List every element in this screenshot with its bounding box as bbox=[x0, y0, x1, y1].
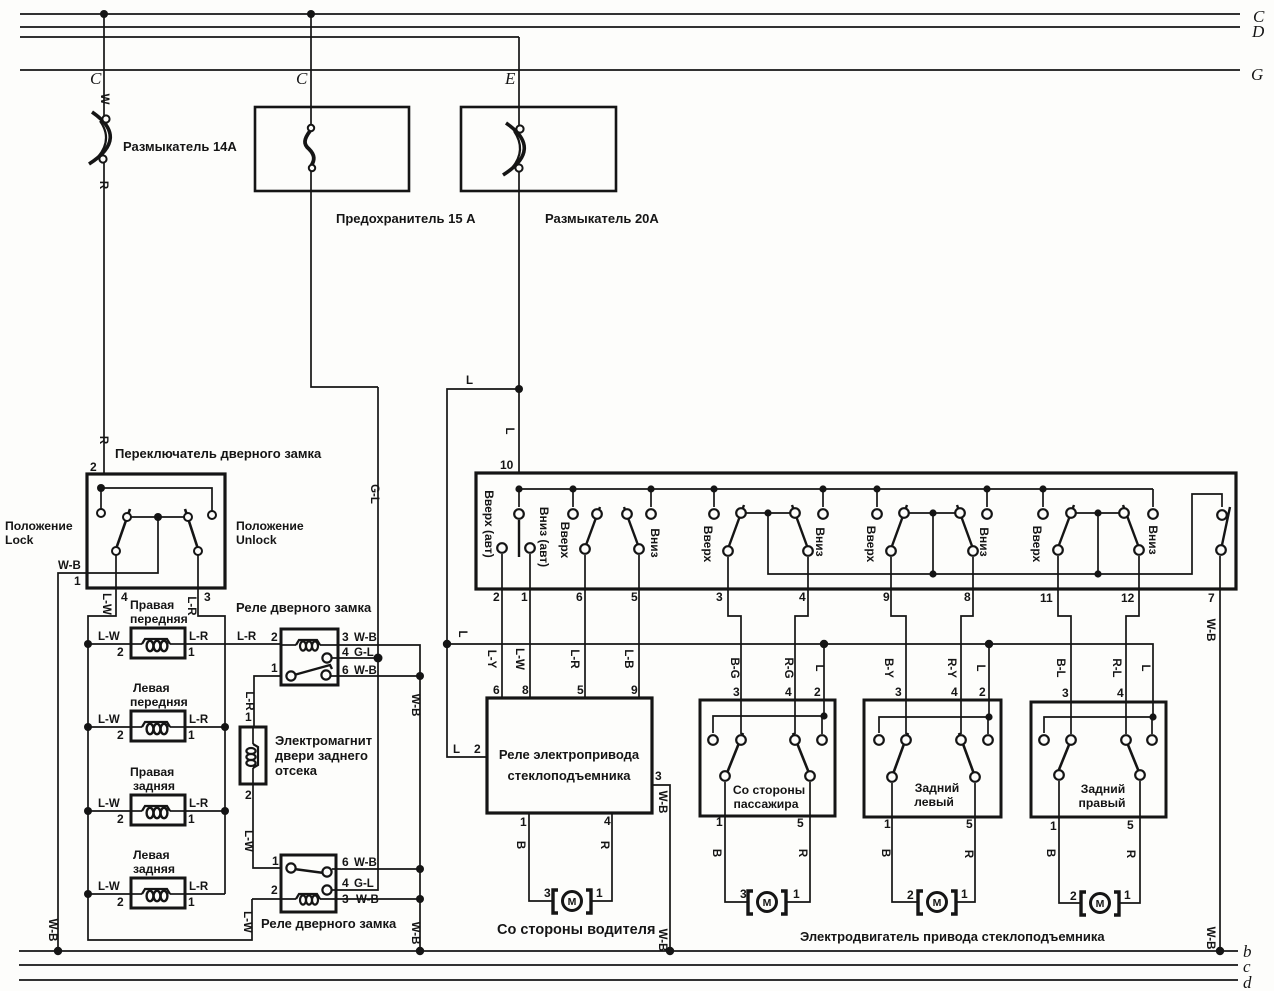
group E link bar bbox=[1071, 512, 1124, 514]
svg-text:L-Y: L-Y bbox=[485, 650, 497, 669]
breaker 14A bottom terminal bbox=[99, 155, 106, 162]
breaker 20A top terminal bbox=[516, 125, 523, 132]
passenger contact pin3 bbox=[736, 735, 746, 745]
power window relay U6 box bbox=[487, 698, 652, 813]
wire rear-left internal rail bbox=[879, 717, 989, 733]
svg-text:B: B bbox=[879, 849, 891, 857]
svg-text:L-R: L-R bbox=[189, 798, 209, 810]
relay1 pivot circle pin1 bbox=[286, 671, 295, 680]
svg-text:3: 3 bbox=[204, 590, 211, 604]
passenger lever left bbox=[727, 733, 743, 773]
svg-text:8: 8 bbox=[522, 683, 529, 697]
node bus b / W-B relay column bbox=[416, 947, 424, 955]
svg-text:6: 6 bbox=[342, 855, 349, 869]
svg-text:Вверх: Вверх bbox=[558, 522, 572, 559]
svg-text:1: 1 bbox=[793, 887, 800, 901]
svg-text:L-R: L-R bbox=[243, 691, 255, 711]
rear-right lever right bbox=[1124, 735, 1139, 772]
svg-text:Правая: Правая bbox=[130, 598, 174, 612]
svg-text:d: d bbox=[1243, 973, 1252, 991]
svg-text:L-W: L-W bbox=[100, 593, 112, 615]
svg-text:B-G: B-G bbox=[728, 657, 740, 678]
svg-text:W-B: W-B bbox=[1204, 927, 1216, 950]
wire panel pin 1 down to relay pin 8 bbox=[529, 554, 531, 698]
wire panel pin 9 down with jog bbox=[891, 557, 906, 734]
node bus b / W-B pin7 bbox=[1216, 947, 1224, 955]
svg-text:5: 5 bbox=[577, 683, 584, 697]
svg-text:1: 1 bbox=[74, 574, 81, 588]
svg-text:W-B: W-B bbox=[1204, 619, 1216, 642]
relay1 coil line bbox=[281, 644, 296, 646]
svg-text:2: 2 bbox=[117, 812, 124, 826]
node G-L at relay1 pin4 bbox=[374, 654, 383, 663]
svg-text:3: 3 bbox=[1062, 686, 1069, 700]
svg-text:W-B: W-B bbox=[656, 929, 668, 952]
lever pivot circle right bbox=[184, 513, 192, 521]
svg-text:4: 4 bbox=[1117, 686, 1124, 700]
svg-text:8: 8 bbox=[964, 590, 971, 604]
rear-right contact far-left bbox=[1039, 735, 1049, 745]
bus C (top) bbox=[20, 13, 1240, 15]
wire row3 bbox=[88, 810, 225, 812]
svg-text:M: M bbox=[1096, 898, 1105, 910]
svg-text:1: 1 bbox=[884, 817, 891, 831]
svg-text:2: 2 bbox=[271, 630, 278, 644]
svg-text:Вниз: Вниз bbox=[977, 527, 991, 556]
node W-B at relay2 pin3 bbox=[416, 895, 424, 903]
solenoid L3 Правая задняя bbox=[131, 795, 185, 825]
svg-text:L-W: L-W bbox=[241, 911, 253, 933]
wire group E link down bbox=[1097, 513, 1099, 574]
svg-text:L-R: L-R bbox=[189, 714, 209, 726]
group E up contact stub bbox=[1042, 489, 1044, 507]
group D link bar bbox=[904, 512, 960, 514]
svg-text:3: 3 bbox=[740, 887, 747, 901]
relay1 pin1 wire bbox=[254, 676, 281, 727]
wire pin2 stub to contact bbox=[987, 717, 989, 734]
node: right bus row3 bbox=[221, 807, 229, 815]
breaker 14A top terminal bbox=[102, 115, 109, 122]
passenger window motor M2 bbox=[748, 891, 786, 914]
group B up lever bbox=[586, 507, 600, 545]
svg-text:2: 2 bbox=[474, 742, 481, 756]
wire panel pin 11 down with jog bbox=[1058, 556, 1071, 734]
bus G bbox=[20, 69, 1240, 71]
svg-text:пассажира: пассажира bbox=[734, 797, 799, 811]
node: switch internal junction pin2 bbox=[97, 484, 105, 492]
wire row2 bbox=[88, 726, 225, 728]
svg-text:C: C bbox=[90, 69, 102, 88]
rear-right pivot pin1 bbox=[1054, 770, 1064, 780]
breaker 14A bbox=[89, 112, 110, 164]
svg-text:1: 1 bbox=[1124, 888, 1131, 902]
contact circle left (Lock side) bbox=[97, 509, 105, 517]
svg-text:R-L: R-L bbox=[1110, 658, 1122, 677]
svg-text:Вниз: Вниз bbox=[648, 528, 662, 557]
svg-text:4: 4 bbox=[342, 876, 349, 890]
relay1 coil loops bbox=[300, 641, 306, 650]
svg-text:12: 12 bbox=[1121, 591, 1135, 605]
svg-text:Вниз: Вниз bbox=[1146, 525, 1160, 554]
relay2 pivot circle pin1 bbox=[286, 863, 295, 872]
wire relay2 pin6 to W-B bus bbox=[332, 868, 420, 870]
svg-text:L-W: L-W bbox=[98, 881, 120, 893]
svg-text:2: 2 bbox=[1070, 889, 1077, 903]
svg-text:W-B: W-B bbox=[356, 894, 379, 906]
svg-text:Вниз (авт): Вниз (авт) bbox=[537, 507, 551, 567]
svg-text:L-R: L-R bbox=[189, 631, 209, 643]
group C link bar bbox=[741, 512, 795, 514]
svg-text:3: 3 bbox=[895, 685, 902, 699]
svg-text:1: 1 bbox=[521, 590, 528, 604]
rear-right contact L bbox=[1147, 735, 1157, 745]
svg-text:2: 2 bbox=[814, 685, 821, 699]
svg-text:4: 4 bbox=[785, 685, 792, 699]
node bus b / W-B left bbox=[54, 947, 62, 955]
master switch panel U5 box bbox=[476, 473, 1236, 589]
svg-text:2: 2 bbox=[271, 883, 278, 897]
svg-text:L-W: L-W bbox=[242, 830, 254, 852]
wire panel pin 3 down with jog bbox=[728, 557, 741, 734]
svg-text:2: 2 bbox=[90, 460, 97, 474]
svg-text:G: G bbox=[1251, 65, 1263, 84]
group C right lever bbox=[792, 505, 807, 546]
wire: panel top rail bbox=[519, 488, 1153, 490]
svg-text:Задний: Задний bbox=[1081, 782, 1126, 796]
wire panel pin 5 down to relay pin 9 bbox=[638, 555, 640, 698]
svg-text:6: 6 bbox=[576, 590, 583, 604]
relay1 coil bump bbox=[296, 640, 320, 645]
contact circle bottom-right (pin 3) bbox=[194, 547, 202, 555]
svg-text:Правая: Правая bbox=[130, 765, 174, 779]
svg-text:L-B: L-B bbox=[622, 649, 634, 668]
svg-text:L: L bbox=[974, 664, 986, 671]
group D down contact stub bbox=[986, 489, 988, 507]
breaker 20A crescent outer arc bbox=[503, 123, 524, 175]
wire row1: solenoid feed lines and to relay pin 2 bbox=[88, 643, 281, 645]
svg-text:L-R: L-R bbox=[568, 649, 580, 669]
svg-text:M: M bbox=[763, 897, 772, 909]
svg-text:9: 9 bbox=[631, 683, 638, 697]
breaker 14A crescent inner arc bbox=[98, 121, 106, 157]
svg-text:G-L: G-L bbox=[354, 878, 374, 890]
svg-text:4: 4 bbox=[799, 590, 806, 604]
svg-text:R-G: R-G bbox=[782, 657, 794, 678]
wire G-L: down to door lock relay pin 4 bbox=[377, 387, 379, 658]
svg-text:W: W bbox=[98, 94, 110, 105]
rear-left contact pin3 bbox=[901, 735, 911, 745]
relay1 contact circle pin6 bbox=[321, 670, 330, 679]
rear left window motor M3 bbox=[918, 891, 956, 914]
svg-text:G-L: G-L bbox=[368, 484, 380, 504]
rear left switch U8 box bbox=[864, 700, 1001, 817]
svg-text:правый: правый bbox=[1079, 796, 1126, 810]
wire passenger pin5 to motor bbox=[786, 782, 810, 902]
svg-text:B-Y: B-Y bbox=[882, 658, 894, 678]
door lock switch box U1 bbox=[87, 474, 225, 588]
svg-text:M: M bbox=[568, 896, 577, 908]
svg-text:R: R bbox=[97, 181, 109, 190]
fuse 15A element bbox=[305, 125, 315, 171]
window lock switch pivot bbox=[1216, 545, 1226, 555]
svg-text:D: D bbox=[1251, 22, 1265, 41]
lever right of door lock switch bbox=[185, 509, 198, 549]
svg-text:2: 2 bbox=[493, 590, 500, 604]
svg-text:отсека: отсека bbox=[275, 763, 318, 778]
window lock switch lever bbox=[1222, 507, 1230, 545]
svg-text:L: L bbox=[813, 664, 825, 671]
svg-text:5: 5 bbox=[1127, 818, 1134, 832]
node: junction C-bus / breaker-14A drop bbox=[100, 10, 108, 18]
wire: breaker 20A down to panel pin 10 bbox=[518, 170, 520, 473]
svg-text:3: 3 bbox=[342, 630, 349, 644]
auto pin 1 contact bbox=[525, 543, 535, 553]
wire L-W электромагнит to relay2 pin1 bbox=[253, 784, 281, 868]
wire relay1 pin6 to W-B bus bbox=[331, 675, 420, 677]
svg-text:Переключатель дверного замка: Переключатель дверного замка bbox=[115, 446, 322, 461]
svg-text:L: L bbox=[503, 427, 515, 434]
svg-text:W-B: W-B bbox=[354, 857, 377, 869]
svg-text:L: L bbox=[453, 744, 460, 756]
svg-text:5: 5 bbox=[966, 817, 973, 831]
svg-text:Положение: Положение bbox=[236, 519, 304, 533]
node: center of link bar bbox=[154, 513, 162, 521]
group C left lever bbox=[729, 505, 744, 546]
wire group D link down bbox=[932, 513, 934, 574]
group D left lever bbox=[892, 505, 907, 546]
door lock relay U2 box bbox=[281, 629, 338, 685]
svg-text:R-Y: R-Y bbox=[945, 658, 957, 678]
node rail x519 bbox=[515, 485, 522, 492]
group B down contact stub bbox=[650, 489, 652, 507]
svg-text:Lock: Lock bbox=[5, 533, 34, 547]
stub and contact auto bbox=[518, 489, 520, 507]
svg-text:1: 1 bbox=[961, 887, 968, 901]
svg-text:1: 1 bbox=[272, 854, 279, 868]
wire L feed line bbox=[447, 644, 1153, 717]
svg-text:3: 3 bbox=[342, 892, 349, 906]
node L line start bbox=[443, 640, 451, 648]
svg-text:W-B: W-B bbox=[58, 560, 81, 572]
rear right window motor M4 bbox=[1081, 892, 1119, 915]
svg-text:3: 3 bbox=[733, 685, 740, 699]
wire panel pin 2 down to relay pin 6 bbox=[501, 554, 503, 698]
group D up contact stub bbox=[876, 489, 878, 507]
svg-text:1: 1 bbox=[520, 815, 527, 829]
svg-text:1: 1 bbox=[188, 895, 195, 909]
svg-text:4: 4 bbox=[121, 590, 128, 604]
wire: window-lock line from group C bbox=[768, 494, 1222, 574]
wire: drop from bus C through fuse bbox=[310, 14, 312, 130]
contact circle bottom-left (pin 4) bbox=[112, 547, 120, 555]
node bus b / W-B window relay bbox=[666, 947, 674, 955]
wire: right L-R bus bbox=[224, 644, 226, 894]
svg-text:7: 7 bbox=[1208, 591, 1215, 605]
svg-text:5: 5 bbox=[631, 590, 638, 604]
rear-left contact pin2 bbox=[983, 735, 993, 745]
svg-text:Предохранитель 15 А: Предохранитель 15 А bbox=[336, 211, 476, 226]
solenoid L4 Левая задняя bbox=[131, 878, 185, 908]
svg-text:Электромагнит: Электромагнит bbox=[275, 733, 372, 748]
wire: L branch to the left then down bbox=[447, 389, 519, 644]
node rail x651 bbox=[647, 485, 654, 492]
svg-text:1: 1 bbox=[188, 645, 195, 659]
rear-left lever left bbox=[893, 733, 908, 774]
svg-text:5: 5 bbox=[797, 816, 804, 830]
svg-text:R: R bbox=[962, 850, 974, 859]
wire L branch passenger down bbox=[823, 644, 825, 716]
node group C link center bbox=[764, 509, 771, 516]
group D right lever bbox=[957, 505, 972, 546]
wire panel pin 12 down with jog bbox=[1126, 556, 1139, 734]
svg-text:двери заднего: двери заднего bbox=[275, 748, 368, 763]
node rail x823 bbox=[819, 485, 826, 492]
node: junction L branch on E wire bbox=[515, 385, 523, 393]
node: left bus row1 bbox=[84, 640, 92, 648]
rear-left lever right bbox=[959, 733, 974, 774]
rear-right pivot pin5 bbox=[1135, 770, 1145, 780]
svg-text:10: 10 bbox=[500, 458, 514, 472]
wire E feeder (third line, turns down at x=519) bbox=[20, 36, 519, 38]
wire relay1 pin4 to G-L node bbox=[332, 657, 378, 659]
driver window motor M1 bbox=[553, 890, 591, 913]
svg-text:B-L: B-L bbox=[1054, 658, 1066, 677]
relay1 contact circle pin4 bbox=[322, 653, 331, 662]
node lock line group E bbox=[1094, 570, 1101, 577]
wire pin2 stub to contact bbox=[821, 716, 823, 734]
svg-text:R: R bbox=[1124, 850, 1136, 859]
wire panel pin 8 down with jog bbox=[961, 557, 973, 734]
svg-text:6: 6 bbox=[342, 663, 349, 677]
svg-text:3: 3 bbox=[716, 590, 723, 604]
rear-left pivot pin5 bbox=[970, 772, 980, 782]
node rail x1043 bbox=[1039, 485, 1046, 492]
bus b bbox=[19, 950, 1238, 952]
wire relay1 pin3 (W-B) to right bus bbox=[338, 645, 420, 951]
relay2 armature lever bbox=[294, 869, 324, 873]
rear-right contact pin4 bbox=[1121, 735, 1131, 745]
group E left lever bbox=[1059, 505, 1074, 545]
svg-text:задняя: задняя bbox=[133, 862, 175, 876]
lever pivot circle left bbox=[123, 513, 131, 521]
wire: left L-W bus bbox=[88, 644, 252, 940]
breaker 20A box bbox=[461, 107, 616, 191]
wire relay2 pin4 to G-L bbox=[332, 658, 378, 890]
trunk door solenoid U3 (Электромагнит) box bbox=[240, 727, 266, 784]
svg-text:передняя: передняя bbox=[130, 612, 188, 626]
svg-text:B: B bbox=[710, 849, 722, 857]
электромагнит coil vertical bbox=[252, 727, 254, 744]
rear right switch U9 box bbox=[1031, 702, 1166, 817]
auto pin 2 contact bbox=[497, 543, 507, 553]
svg-text:L-W: L-W bbox=[98, 798, 120, 810]
node: left bus row4 bbox=[84, 890, 92, 898]
svg-text:задняя: задняя bbox=[133, 779, 175, 793]
group C down contact stub bbox=[822, 489, 824, 507]
wire passenger internal rail bbox=[713, 716, 824, 733]
svg-text:L-W: L-W bbox=[513, 648, 525, 670]
wire relay pin 3 out right bbox=[652, 785, 670, 951]
svg-text:B: B bbox=[1044, 849, 1056, 857]
node L branch passenger bbox=[820, 640, 828, 648]
svg-text:W-B: W-B bbox=[354, 632, 377, 644]
group E down contact stub (rail end) bbox=[1152, 489, 1154, 507]
svg-text:4: 4 bbox=[604, 814, 611, 828]
passenger contact far-left bbox=[708, 735, 718, 745]
svg-text:Левая: Левая bbox=[133, 681, 170, 695]
svg-text:4: 4 bbox=[951, 685, 958, 699]
svg-text:B: B bbox=[514, 841, 526, 849]
node rail x714 bbox=[710, 485, 717, 492]
breaker 20A bottom terminal bbox=[515, 164, 522, 171]
group B up contact stub bbox=[572, 489, 574, 507]
passenger lever right bbox=[793, 733, 809, 773]
node rail x877 bbox=[873, 485, 880, 492]
svg-text:Размыкатель 20А: Размыкатель 20А bbox=[545, 211, 659, 226]
wire L branch rear-left down bbox=[988, 644, 990, 717]
svg-text:3: 3 bbox=[655, 769, 662, 783]
svg-text:1: 1 bbox=[188, 812, 195, 826]
svg-text:Unlock: Unlock bbox=[236, 533, 277, 547]
svg-text:Вверх (авт): Вверх (авт) bbox=[482, 490, 496, 558]
relay2 coil loops bbox=[300, 895, 306, 904]
svg-text:2: 2 bbox=[907, 888, 914, 902]
svg-text:Положение: Положение bbox=[5, 519, 73, 533]
svg-text:L-W: L-W bbox=[98, 714, 120, 726]
relay2 contact circle pin6 bbox=[322, 867, 331, 876]
svg-text:Реле электропривода: Реле электропривода bbox=[499, 747, 640, 762]
svg-text:L-R: L-R bbox=[189, 881, 209, 893]
fuse 15A box bbox=[255, 107, 409, 191]
bus c bbox=[19, 964, 1238, 966]
svg-text:W-B: W-B bbox=[409, 694, 421, 717]
solenoid L2 Левая передняя bbox=[131, 711, 185, 741]
relay2 coil line pin2-pin3 bbox=[252, 898, 296, 900]
svg-text:1: 1 bbox=[245, 710, 252, 724]
svg-text:6: 6 bbox=[493, 683, 500, 697]
svg-text:L: L bbox=[466, 375, 473, 387]
wire: E drop through breaker 20A bbox=[518, 37, 520, 127]
node: right bus row2 bbox=[221, 723, 229, 731]
svg-text:W-B: W-B bbox=[656, 791, 668, 814]
wire: stub to left fixed contact bbox=[100, 488, 102, 509]
wire: fuse down then jog right to G-L bbox=[311, 167, 378, 387]
node rail pin2 bbox=[820, 712, 827, 719]
rear-left contact far-left bbox=[874, 735, 884, 745]
window lock switch contact bbox=[1217, 510, 1227, 520]
fuse top terminal bbox=[308, 125, 314, 131]
wire pin 3 of switch down with jog right bbox=[198, 555, 225, 644]
svg-text:левый: левый bbox=[914, 795, 954, 809]
relay1 armature lever bbox=[294, 665, 332, 675]
wire rear-left pin5 to motor bbox=[956, 783, 975, 902]
svg-text:Со стороны водителя: Со стороны водителя bbox=[497, 922, 655, 938]
svg-text:W-B: W-B bbox=[409, 922, 421, 945]
auto lever vertical bbox=[518, 520, 520, 557]
svg-text:Вверх: Вверх bbox=[701, 526, 715, 563]
wire: link bar between pivots bbox=[131, 516, 184, 518]
wire: breaker 14A to door-lock switch pin 2 bbox=[103, 162, 105, 474]
wire: internal top rail bbox=[101, 488, 212, 511]
fuse S-curve bbox=[305, 131, 314, 166]
wire W-B: from switch pin1 to bottom bus b bbox=[58, 573, 87, 951]
svg-text:1: 1 bbox=[271, 661, 278, 675]
node: junction C-bus / fuse drop bbox=[307, 10, 315, 18]
svg-text:Реле дверного замка: Реле дверного замка bbox=[261, 916, 397, 931]
breaker 14A crescent outer arc bbox=[89, 112, 110, 164]
svg-text:R: R bbox=[598, 841, 610, 850]
bus d bbox=[19, 979, 1238, 981]
